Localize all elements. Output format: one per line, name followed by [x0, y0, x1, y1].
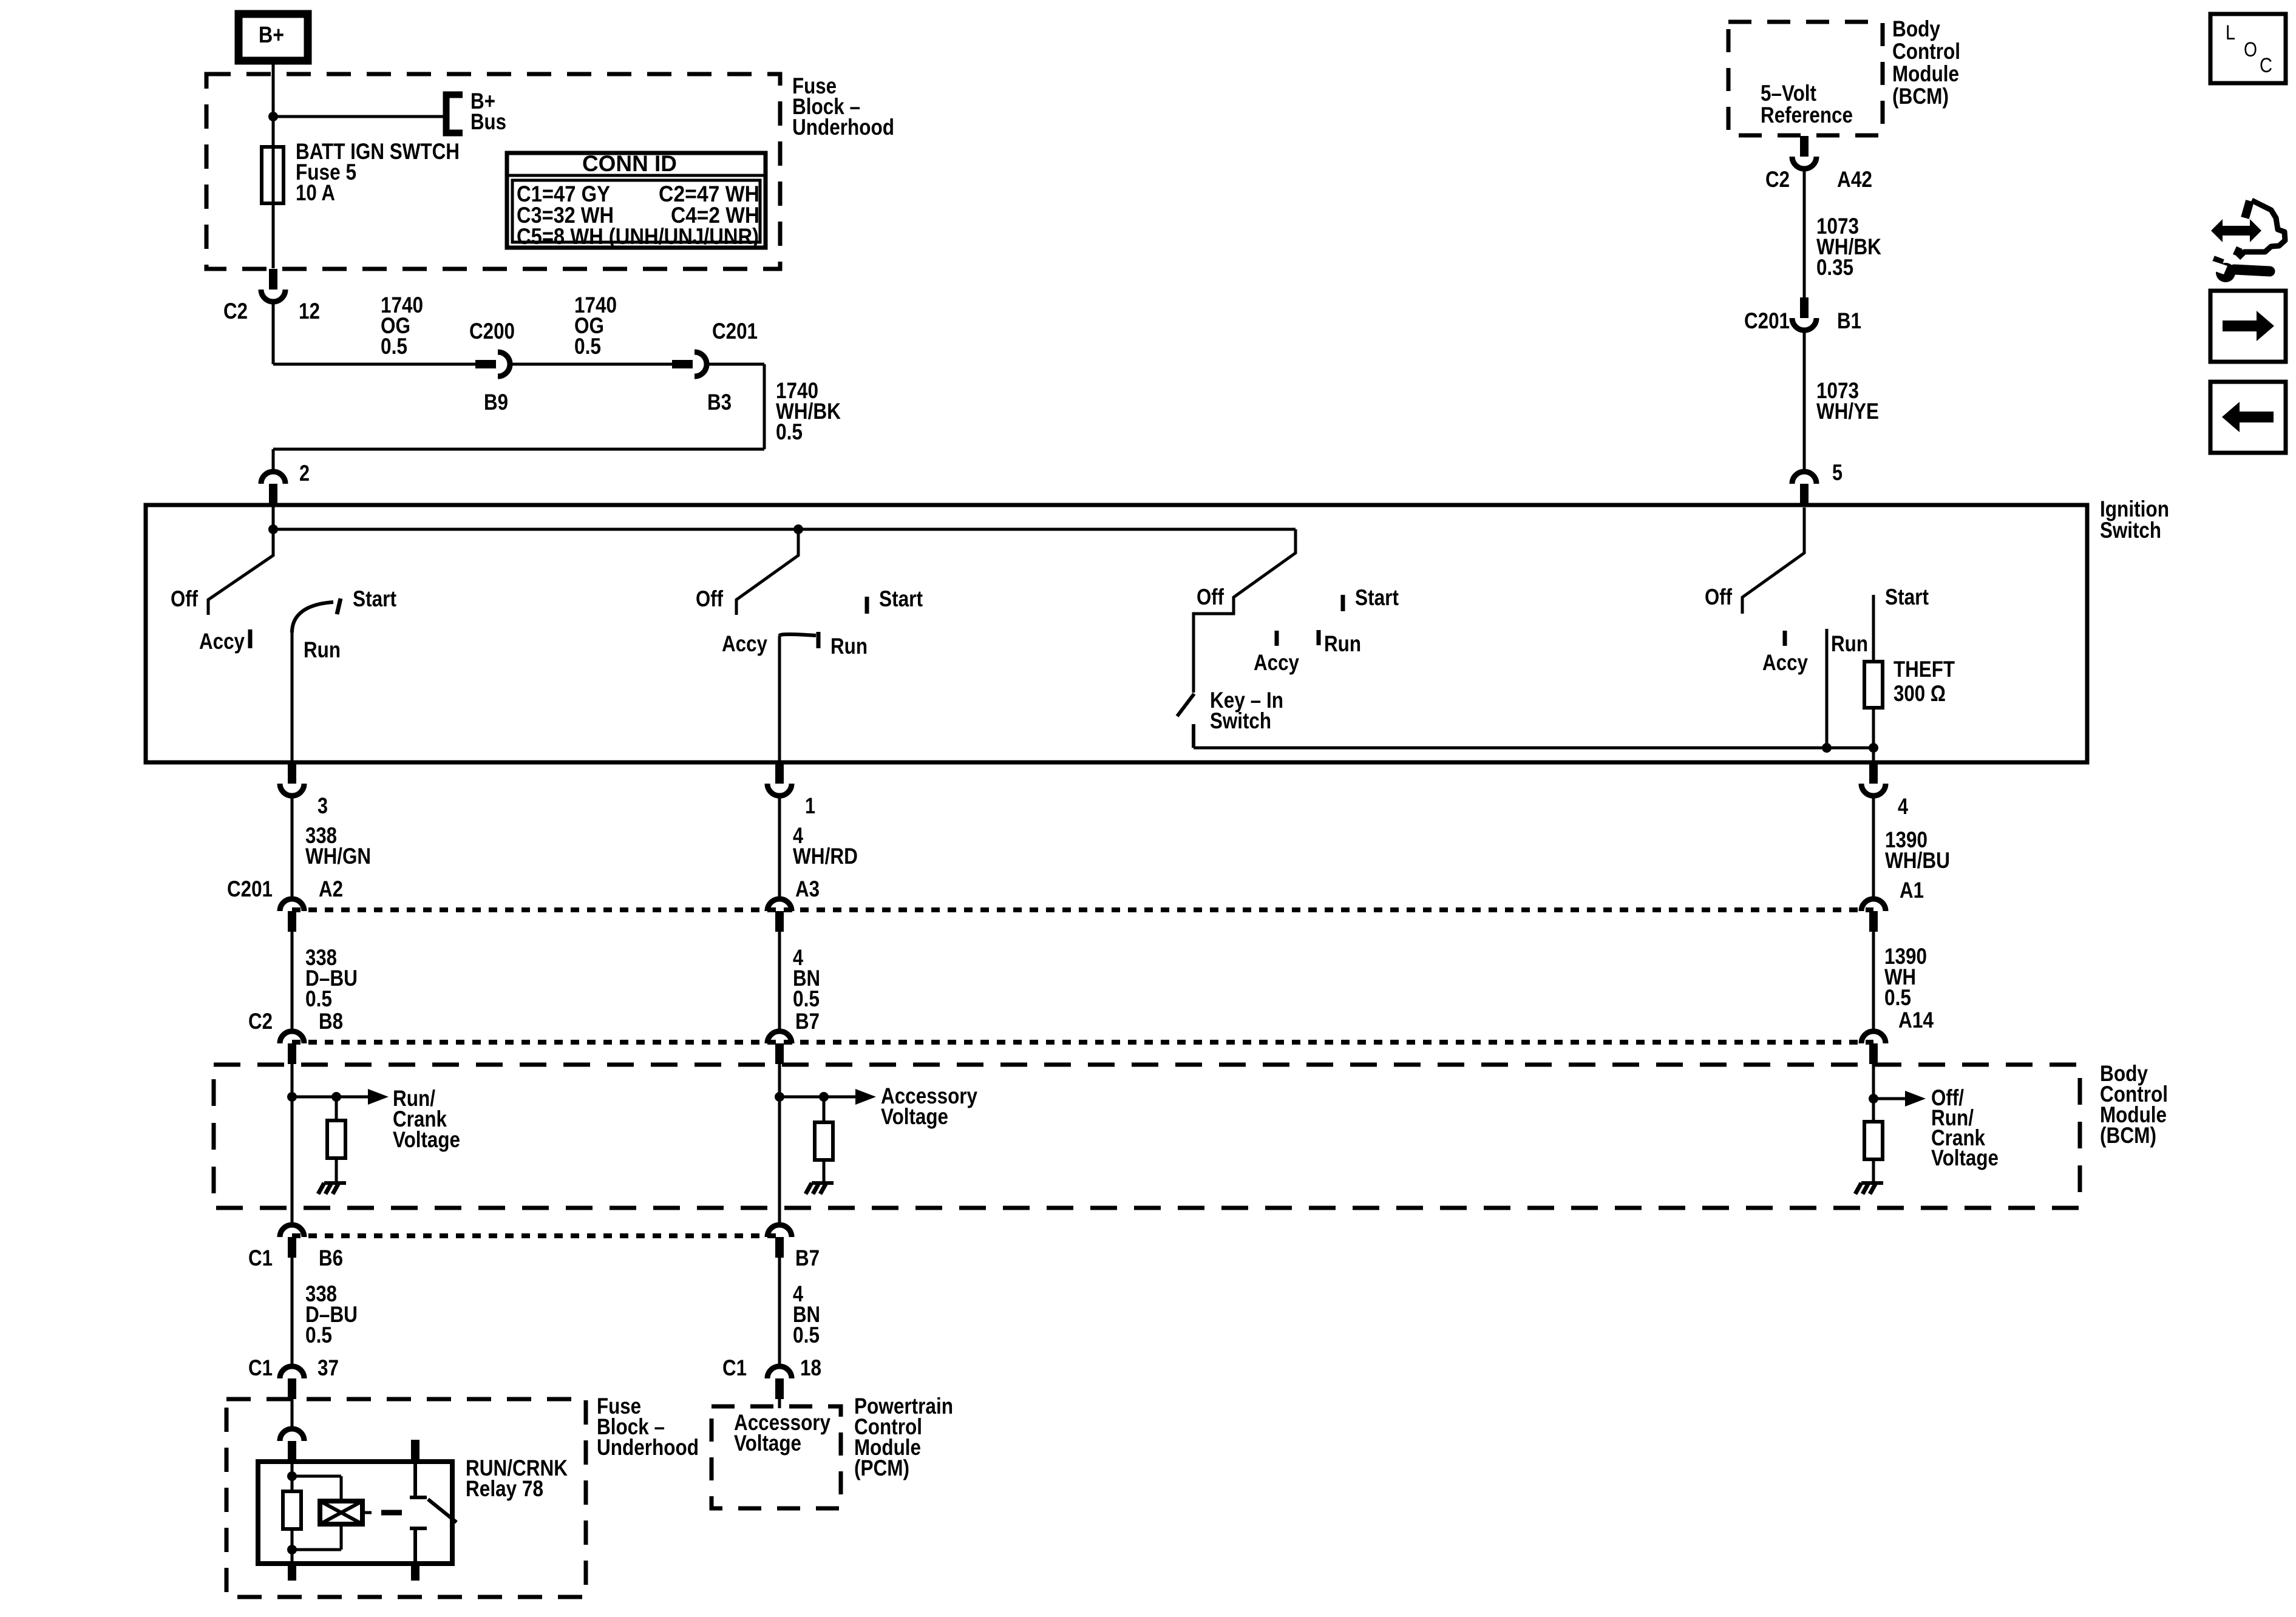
- switch section2 Off contact: [736, 529, 798, 615]
- label section3 Off: [1197, 585, 1224, 609]
- svg-text:A3: A3: [795, 876, 820, 901]
- svg-text:Off: Off: [1705, 585, 1733, 609]
- wire section1 Run to pin 3: [291, 631, 294, 762]
- svg-text:C201: C201: [227, 876, 273, 901]
- svg-text:1: 1: [805, 793, 815, 818]
- switch section4 Off contact: [1742, 507, 1804, 614]
- wire relay coil branch top: [292, 1476, 341, 1501]
- svg-text:C1: C1: [248, 1355, 273, 1380]
- wire 338 D-BU upper: [291, 931, 294, 1032]
- label circuit 1740 OG 0.5 (left): [381, 293, 423, 359]
- wire BCM right resistor to ground: [1872, 1159, 1875, 1181]
- wire 338 WH/GN: [291, 797, 294, 900]
- harness dashed row C201: [292, 907, 1873, 912]
- svg-text:C: C: [2260, 54, 2272, 77]
- svg-text:Off: Off: [1197, 585, 1224, 609]
- connector C1 pin 18: [722, 1355, 821, 1399]
- wire BCM middle resistor to ground: [823, 1160, 826, 1181]
- BCM accessory sense arrow: [779, 1089, 876, 1105]
- node bus junction pin2: [268, 524, 278, 534]
- switch section1 Off contact: [208, 529, 273, 615]
- relay box RUN/CRNK: [258, 1462, 452, 1564]
- node junction B+ bus tap: [268, 112, 278, 121]
- label fuse 5: [296, 139, 460, 205]
- ground BCM right: [1855, 1183, 1883, 1194]
- node junction pin 4: [1869, 743, 1878, 753]
- connector ignition pin 4: [1861, 763, 1908, 819]
- svg-text:A42: A42: [1837, 167, 1872, 192]
- svg-text:Start: Start: [1885, 585, 1929, 609]
- label circuit 4 BN 0.5 (lower): [793, 1281, 820, 1347]
- wire 4 BN lower: [778, 1256, 781, 1367]
- label circuit 338 WH/GN: [305, 823, 371, 869]
- label Off/Run/Crank Voltage: [1931, 1085, 1999, 1170]
- wire to fuse block 2: [291, 1398, 294, 1429]
- connector C200 pin B9: [469, 319, 515, 415]
- svg-text:Underhood: Underhood: [792, 115, 894, 140]
- svg-text:B7: B7: [795, 1246, 820, 1270]
- label Fuse Block - Underhood (top): [792, 73, 894, 140]
- label circuit 1390 WH/BU: [1885, 827, 1950, 873]
- svg-text:C2: C2: [1765, 167, 1790, 192]
- power feed symbol B+ box: [239, 14, 308, 61]
- svg-text:Start: Start: [1355, 585, 1399, 610]
- label section1 Start: [353, 586, 396, 611]
- resistor BCM left pulldown: [327, 1097, 345, 1158]
- svg-text:Run: Run: [304, 637, 341, 662]
- wire BCM left pass-through: [291, 1097, 294, 1208]
- wire BCM right pass-through: [1872, 1063, 1875, 1099]
- node BCM accessory junction: [775, 1092, 784, 1102]
- svg-text:Voltage: Voltage: [393, 1127, 460, 1152]
- svg-text:C201: C201: [1744, 308, 1790, 333]
- svg-text:Body: Body: [1892, 16, 1940, 41]
- svg-text:12: 12: [299, 299, 320, 324]
- ground BCM middle: [806, 1183, 834, 1194]
- svg-text:(PCM): (PCM): [854, 1456, 909, 1480]
- wire into BCM left: [291, 1063, 294, 1225]
- label section4 Start: [1885, 585, 1929, 609]
- wire fuse to connector C2-12: [272, 203, 275, 268]
- svg-text:Accy: Accy: [199, 629, 245, 654]
- wire 1390 WH/BU: [1872, 797, 1875, 900]
- section4 Accy contact tick: [1762, 631, 1808, 675]
- wire section4 Run contact: [1826, 629, 1829, 748]
- wire 338 D-BU lower: [291, 1256, 294, 1367]
- icon arrow-right box: [2210, 291, 2286, 362]
- svg-text:10 A: 10 A: [296, 180, 335, 205]
- svg-text:WH/BU: WH/BU: [1885, 848, 1950, 873]
- svg-text:Voltage: Voltage: [1931, 1145, 1999, 1170]
- connector C201 pin B3: [672, 319, 758, 415]
- svg-text:Control: Control: [1892, 39, 1960, 64]
- connector C201 pin A1: [1861, 878, 1924, 932]
- label RUN/CRNK Relay 78: [466, 1456, 568, 1501]
- svg-text:THEFT: THEFT: [1894, 657, 1955, 682]
- wire 1740 OG run to C200: [273, 303, 476, 364]
- B+ Bus bar terminal: [446, 89, 506, 134]
- svg-text:18: 18: [800, 1355, 821, 1380]
- label Run/Crank Voltage: [393, 1086, 460, 1152]
- node BCM off/run/crank junction: [1869, 1094, 1878, 1103]
- svg-text:5–Volt: 5–Volt: [1761, 81, 1816, 106]
- section3 Accy contact tick: [1254, 631, 1299, 675]
- resistor BCM middle pulldown: [815, 1097, 833, 1160]
- svg-text:Start: Start: [353, 586, 396, 611]
- CONN ID table: [507, 151, 766, 249]
- label Body Control Module BCM (right): [2100, 1061, 2168, 1148]
- svg-text:WH/RD: WH/RD: [793, 844, 858, 869]
- svg-text:C2: C2: [248, 1009, 273, 1034]
- label circuit 4 WH/RD: [793, 823, 858, 869]
- wire B+ box to fuse: [272, 61, 275, 147]
- svg-text:0.5: 0.5: [381, 334, 407, 359]
- wire to B+ bus bar: [273, 115, 444, 118]
- label section1 Off: [171, 586, 199, 611]
- svg-text:Accy: Accy: [1762, 650, 1808, 675]
- svg-text:O: O: [2244, 38, 2257, 61]
- icon hand with wrench and double arrow: [2210, 200, 2285, 282]
- ground BCM left: [318, 1183, 346, 1194]
- section3 Run contact tick: [1319, 630, 1361, 656]
- BCM run/crank sense arrow: [292, 1089, 389, 1105]
- label Fuse Block - Underhood (bottom): [597, 1394, 699, 1460]
- node BCM run/crank junction: [287, 1092, 297, 1102]
- connector C201 pin A2: [227, 876, 343, 932]
- svg-text:3: 3: [318, 793, 328, 818]
- label Powertrain Control Module PCM: [854, 1394, 953, 1480]
- wire 4 WH/RD: [778, 797, 781, 900]
- svg-text:Voltage: Voltage: [734, 1431, 801, 1456]
- svg-text:0.5: 0.5: [776, 419, 803, 444]
- label Accessory Voltage (BCM): [881, 1083, 977, 1129]
- connector C2 pin A14: [1861, 1008, 1934, 1064]
- label section4 Off: [1705, 585, 1733, 609]
- svg-text:0.5: 0.5: [1884, 985, 1911, 1010]
- wire 1073 WH/BK: [1803, 170, 1806, 298]
- label section2 Off: [696, 586, 724, 611]
- connector C1 pin 37: [248, 1355, 339, 1399]
- svg-text:(BCM): (BCM): [2100, 1123, 2156, 1148]
- svg-text:Accy: Accy: [722, 631, 767, 656]
- svg-text:0.5: 0.5: [305, 1323, 332, 1347]
- label circuit 1073 WH/YE: [1816, 378, 1879, 424]
- connector C2 pin B7: [767, 1009, 820, 1064]
- label section2 Accy: [722, 631, 767, 656]
- wire THEFT resistor to bus: [1872, 708, 1875, 748]
- icon arrow-left box: [2210, 382, 2286, 453]
- label section2 Run: [830, 634, 868, 659]
- label Key-In Switch: [1210, 688, 1283, 733]
- relay switch fixed contact bottom: [410, 1528, 427, 1581]
- connector C1 pin B7 (lower): [767, 1225, 820, 1270]
- relay coil (solenoid with X): [320, 1501, 362, 1524]
- label section1 Run: [304, 637, 341, 662]
- connector C2 pin B8: [248, 1009, 343, 1064]
- label circuit 1740 OG 0.5 (right): [574, 293, 617, 359]
- wire key-in to section4 bottom bus: [1194, 747, 1873, 750]
- svg-text:4: 4: [1898, 794, 1908, 819]
- connector BCM C2 pin A42: [1765, 136, 1872, 192]
- wire 1073 WH/YE: [1803, 331, 1806, 472]
- svg-text:Off: Off: [171, 586, 199, 611]
- wire BCM left resistor to ground: [335, 1158, 338, 1181]
- section2 Start contact tick: [867, 586, 923, 614]
- wire relay coil branch bottom: [292, 1524, 341, 1550]
- svg-text:5: 5: [1832, 460, 1843, 485]
- label circuit 338 D-BU 0.5 (lower): [305, 1281, 358, 1347]
- fuse block underhood dashed box (bottom): [226, 1399, 586, 1597]
- label section4 Run: [1831, 631, 1868, 656]
- svg-text:Voltage: Voltage: [881, 1104, 948, 1129]
- svg-text:0.5: 0.5: [574, 334, 601, 359]
- PCM accessory voltage dashed box: [712, 1406, 841, 1508]
- svg-text:Off: Off: [696, 586, 724, 611]
- svg-text:B1: B1: [1837, 308, 1861, 333]
- section1 Accy contact tick: [199, 629, 250, 654]
- svg-text:B3: B3: [707, 390, 732, 415]
- label circuit 4 BN 0.5 (upper): [793, 945, 820, 1011]
- key-in switch off contact path: [1194, 529, 1296, 693]
- label circuit 1390 WH 0.5: [1884, 944, 1927, 1010]
- svg-text:0.5: 0.5: [793, 986, 820, 1011]
- svg-text:B8: B8: [319, 1009, 343, 1034]
- svg-text:Reference: Reference: [1761, 103, 1853, 127]
- svg-text:0.35: 0.35: [1816, 255, 1853, 280]
- BCM off/run/crank sense arrow: [1873, 1091, 1926, 1107]
- svg-text:CONN ID: CONN ID: [582, 151, 677, 176]
- svg-text:Accy: Accy: [1254, 650, 1299, 675]
- connector fuse block entry: [280, 1429, 304, 1462]
- connector ignition switch pin 5: [1792, 460, 1843, 504]
- svg-text:Relay 78: Relay 78: [466, 1476, 543, 1501]
- harness dashed row C1: [292, 1233, 779, 1238]
- svg-text:Switch: Switch: [2100, 518, 2161, 543]
- wire section2 Accy to pin 1: [778, 636, 781, 762]
- svg-text:C200: C200: [469, 319, 515, 344]
- svg-text:0.5: 0.5: [793, 1323, 820, 1347]
- svg-text:Module: Module: [1892, 61, 1959, 86]
- svg-text:C1: C1: [248, 1246, 273, 1270]
- node junction Run wire: [1822, 743, 1832, 753]
- wire 1740 WH/BK to ignition switch pin 2: [273, 364, 764, 472]
- connector C2 pin 12: [223, 269, 320, 324]
- svg-text:Underhood: Underhood: [597, 1435, 699, 1460]
- svg-text:37: 37: [318, 1355, 339, 1380]
- svg-text:C2: C2: [223, 299, 248, 324]
- svg-text:2: 2: [299, 461, 310, 486]
- Body Control Module dashed box: [214, 1065, 2080, 1208]
- connector C201 pin B1: [1744, 297, 1861, 333]
- svg-text:A1: A1: [1900, 878, 1924, 903]
- ignition switch box: [146, 505, 2087, 762]
- label circuit 338 D-BU 0.5 (upper): [305, 945, 358, 1011]
- connector ignition pin 3: [280, 763, 328, 818]
- svg-text:B+: B+: [259, 22, 284, 48]
- fuse block underhood dashed box (top): [206, 74, 780, 269]
- resistor THEFT 300 ohm: [1864, 657, 1955, 708]
- connector ignition switch pin 2: [261, 461, 310, 504]
- wire internal feed bus: [273, 505, 1296, 529]
- connector ignition pin 1: [767, 763, 815, 818]
- BCM 5-Volt Reference dashed box: [1728, 22, 1883, 135]
- harness dashed row C2: [292, 1040, 1873, 1045]
- svg-text:B9: B9: [484, 390, 508, 415]
- section3 Start contact tick: [1343, 585, 1399, 611]
- resistor relay parallel: [283, 1476, 301, 1550]
- relay switch fixed contact top: [410, 1440, 427, 1497]
- svg-text:WH/GN: WH/GN: [305, 844, 371, 869]
- node relay coil bottom junction: [287, 1545, 297, 1554]
- wire relay coil output stub: [288, 1550, 296, 1581]
- svg-text:A14: A14: [1898, 1008, 1934, 1032]
- svg-text:B6: B6: [319, 1246, 343, 1270]
- node bus junction section2: [793, 524, 803, 534]
- connector C201 pin A3: [767, 876, 820, 932]
- wire section4 Start contact: [1872, 595, 1875, 662]
- label Ignition Switch: [2100, 497, 2169, 543]
- svg-text:300 Ω: 300 Ω: [1894, 681, 1946, 706]
- wire pin4 exit: [1872, 748, 1875, 762]
- wire 1390 WH: [1872, 931, 1875, 1032]
- node relay coil top junction: [287, 1471, 297, 1481]
- svg-text:Switch: Switch: [1210, 708, 1271, 733]
- wire 1740 OG run to C201: [512, 363, 673, 366]
- svg-text:C201: C201: [712, 319, 758, 344]
- resistor BCM right pulldown: [1864, 1099, 1883, 1159]
- wire relay coil feed: [291, 1462, 294, 1476]
- svg-text:Bus: Bus: [470, 109, 506, 134]
- svg-text:L: L: [2226, 21, 2235, 44]
- svg-text:(BCM): (BCM): [1892, 84, 1949, 109]
- relay mechanical link dashes: [381, 1510, 402, 1516]
- section1 Run-Start moving contact curve: [292, 598, 341, 632]
- key-in switch blade: [1177, 694, 1194, 716]
- wire 4 BN upper: [778, 931, 781, 1032]
- svg-text:Run: Run: [1831, 631, 1868, 656]
- key-in switch lower contact: [1192, 724, 1195, 748]
- label circuit 1073 WH/BK 0.35: [1816, 214, 1881, 280]
- svg-text:Start: Start: [879, 586, 923, 611]
- svg-text:C5=8 WH (UNH/UNJ/UNR): C5=8 WH (UNH/UNJ/UNR): [517, 224, 759, 249]
- relay switch blade: [428, 1499, 457, 1522]
- svg-text:Run: Run: [830, 634, 868, 659]
- svg-text:B7: B7: [795, 1009, 820, 1034]
- label circuit 1740 WH/BK 0.5: [776, 378, 841, 444]
- svg-text:C1: C1: [722, 1355, 747, 1380]
- wire relay coil to mechanical link: [362, 1511, 372, 1514]
- connector C1 pin B6: [248, 1225, 343, 1270]
- svg-text:Run: Run: [1324, 631, 1361, 656]
- section2 Accy-Run moving contact curve: [779, 632, 818, 648]
- svg-text:A2: A2: [319, 876, 343, 901]
- fuse F5 BATT IGN SWTCH 10A: [262, 147, 284, 203]
- label Body Control Module BCM (top): [1892, 16, 1960, 109]
- wire BCM middle pass-through: [778, 1063, 781, 1225]
- svg-text:WH/YE: WH/YE: [1816, 399, 1879, 424]
- svg-text:0.5: 0.5: [305, 986, 332, 1011]
- icon LOC box: [2210, 14, 2286, 83]
- wire into PCM: [778, 1398, 781, 1408]
